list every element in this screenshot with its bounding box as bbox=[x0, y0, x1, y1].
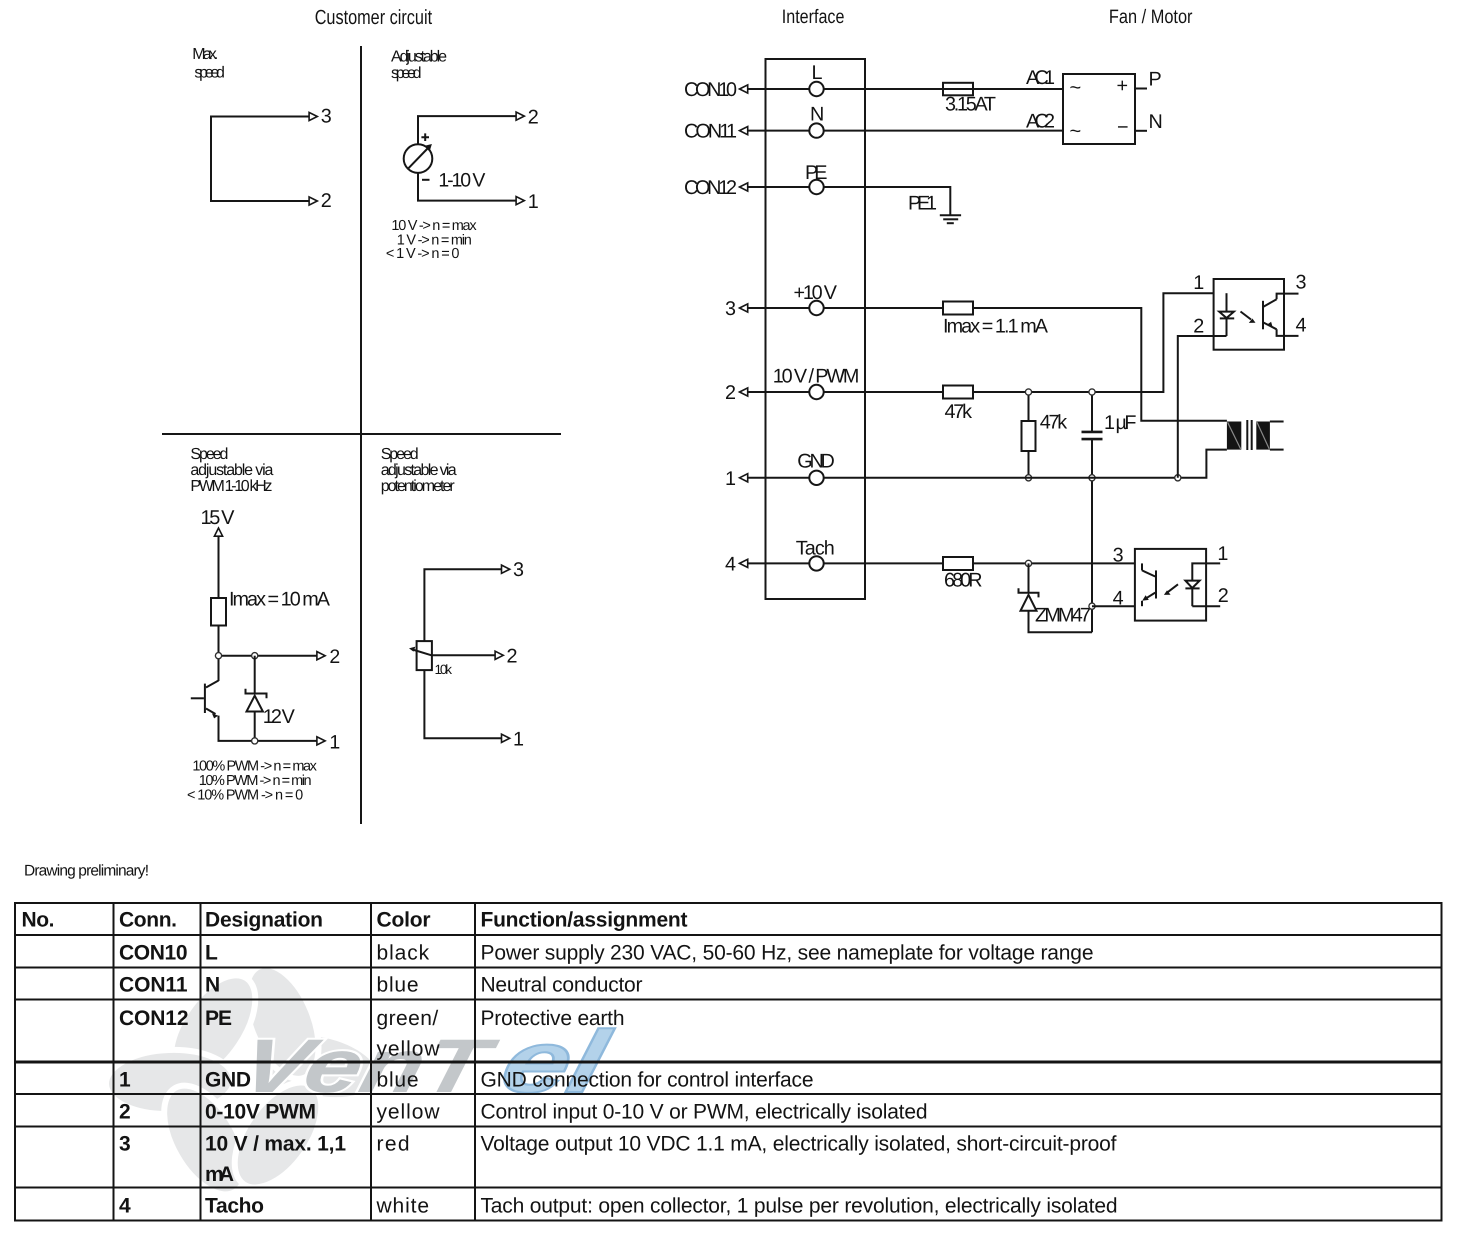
resistor Imax 1.1mA bbox=[943, 302, 973, 315]
transistor Q1 base bar bbox=[204, 684, 206, 713]
table row 4 Tacho bbox=[119, 1195, 1118, 1218]
resistor R 47k series bbox=[943, 386, 973, 399]
wire opto U1 pin2 to GND rail bbox=[1178, 336, 1227, 478]
svg-text:2: 2 bbox=[119, 1101, 131, 1124]
wire: resistor to collector bbox=[218, 626, 220, 682]
svg-text:2: 2 bbox=[528, 107, 539, 129]
plus sign bbox=[421, 133, 429, 141]
wire CON11 arrow bbox=[748, 130, 810, 132]
svg-text:4: 4 bbox=[119, 1195, 131, 1218]
junction node cap/GND bbox=[1089, 475, 1095, 481]
terminal L bbox=[809, 82, 823, 96]
svg-text:PE: PE bbox=[205, 1007, 232, 1030]
capacitor C1 1uF bbox=[1082, 392, 1103, 478]
arrowhead pin 2 bbox=[309, 197, 317, 205]
opto U2 LED bbox=[1185, 563, 1220, 606]
junction node 47k/GND bbox=[1025, 475, 1031, 481]
opto U1 light arrow bbox=[1241, 312, 1256, 323]
wire node to shunt resistor 47k bbox=[1028, 392, 1030, 421]
svg-text:Max.: Max. bbox=[192, 46, 218, 63]
wire transformer secondary bottom bbox=[1270, 449, 1284, 451]
terminal +10V bbox=[809, 301, 823, 315]
interface box bbox=[766, 59, 866, 599]
svg-text:AC2: AC2 bbox=[1026, 111, 1055, 133]
svg-text:blue: blue bbox=[377, 974, 419, 997]
connection table bbox=[15, 903, 1442, 1221]
wire N output bbox=[1135, 130, 1147, 132]
svg-text:Imax = 1.1 mA: Imax = 1.1 mA bbox=[943, 315, 1049, 337]
svg-text:Power supply 230 VAC, 50-60 Hz: Power supply 230 VAC, 50-60 Hz, see name… bbox=[481, 942, 1094, 965]
table row CON11 N bbox=[119, 974, 643, 997]
svg-text:GND: GND bbox=[797, 451, 835, 473]
arrowhead pin 3 bbox=[309, 112, 317, 120]
wire: node to zener bbox=[254, 656, 256, 694]
svg-text:black: black bbox=[377, 942, 430, 965]
junction node zener top bbox=[252, 653, 258, 659]
svg-text:1: 1 bbox=[329, 731, 340, 753]
svg-text:1: 1 bbox=[119, 1069, 131, 1092]
svg-text:PWM 1-10 kHz: PWM 1-10 kHz bbox=[190, 478, 272, 495]
table row 3 10V max 1.1mA bbox=[119, 1133, 1117, 1187]
label: Max. speed bbox=[192, 46, 225, 82]
arrowhead pin 3 bbox=[502, 565, 510, 573]
table outer border bbox=[15, 903, 1442, 1221]
arrowhead pin 2 bbox=[516, 112, 524, 120]
variability arrow through source bbox=[408, 147, 429, 169]
svg-text:CON11: CON11 bbox=[119, 974, 188, 997]
pot wiper arrow bbox=[413, 650, 432, 656]
wire Tach to resistor 680R bbox=[824, 562, 943, 564]
svg-text:Fan / Motor: Fan / Motor bbox=[1109, 6, 1193, 28]
table row CON10 L bbox=[119, 942, 1094, 965]
wire: source - to pin 1 bbox=[418, 173, 516, 201]
wire: emitter to pin 1 rail bbox=[219, 716, 318, 741]
label: Speed adjustable via PWM 1-10 kHz bbox=[190, 446, 273, 495]
transistor Q1 base wire bbox=[191, 697, 204, 699]
wire 10V/PWM to resistor 47k bbox=[824, 391, 943, 393]
svg-text:2: 2 bbox=[329, 646, 340, 668]
wire pin3 arrow bbox=[748, 307, 810, 309]
svg-text:Drawing preliminary!: Drawing preliminary! bbox=[24, 863, 149, 880]
wire N to rectifier AC2 bbox=[824, 130, 1063, 132]
table row CON12 PE bbox=[119, 1007, 625, 1061]
svg-text:No.: No. bbox=[22, 909, 55, 932]
wire: pot bottom to pin 1 bbox=[424, 670, 501, 738]
minus sign bbox=[422, 179, 430, 181]
label: Speed adjustable via potentiometer bbox=[381, 446, 457, 495]
arrowhead pin 2 bbox=[495, 651, 503, 659]
svg-text:blue: blue bbox=[377, 1069, 419, 1092]
note: voltage to speed mapping bbox=[386, 218, 477, 262]
opto-coupler U2 box bbox=[1135, 549, 1206, 621]
svg-text:3: 3 bbox=[725, 298, 736, 320]
svg-text:N: N bbox=[205, 974, 220, 997]
svg-text:N: N bbox=[810, 104, 824, 126]
svg-text:< 1 V -> n = 0: < 1 V -> n = 0 bbox=[386, 246, 460, 262]
wire pin1 arrow bbox=[748, 477, 810, 479]
svg-text:PE1: PE1 bbox=[908, 193, 937, 215]
svg-text:1: 1 bbox=[528, 191, 539, 213]
svg-text:1: 1 bbox=[1193, 272, 1204, 294]
svg-text:Control input 0-10 V or PWM, e: Control input 0-10 V or PWM, electricall… bbox=[481, 1101, 928, 1124]
svg-text:CON11: CON11 bbox=[684, 121, 737, 143]
svg-text:10 V / PWM: 10 V / PWM bbox=[773, 366, 860, 388]
svg-text:10k: 10k bbox=[435, 662, 453, 677]
resistor R 47k shunt bbox=[1022, 421, 1036, 451]
zener diode 12V bbox=[246, 689, 267, 741]
svg-text:+10 V: +10 V bbox=[794, 282, 838, 304]
wire 680R to opto U2 pin3 bbox=[973, 562, 1142, 564]
wire: wiper to pin 2 bbox=[432, 654, 495, 656]
wire: pot top to pin 3 bbox=[424, 569, 501, 641]
arrowhead up 15V bbox=[214, 528, 222, 536]
arrowhead pin 2 bbox=[317, 652, 325, 660]
junction node tach/zener bbox=[1025, 560, 1031, 566]
svg-text:~: ~ bbox=[1070, 77, 1082, 99]
rectifier bridge U3 bbox=[1063, 74, 1135, 144]
svg-text:~: ~ bbox=[1070, 121, 1082, 143]
svg-text:speed: speed bbox=[194, 65, 225, 82]
terminal GND bbox=[809, 471, 823, 485]
svg-text:15 V: 15 V bbox=[201, 507, 236, 529]
svg-text:3: 3 bbox=[1113, 545, 1124, 567]
wire: 15V to resistor bbox=[218, 536, 220, 598]
svg-text:4: 4 bbox=[1113, 587, 1124, 609]
svg-text:VenT: VenT bbox=[232, 1024, 505, 1109]
opto-coupler U1 box bbox=[1214, 279, 1284, 350]
svg-text:2: 2 bbox=[725, 382, 736, 404]
table header row bbox=[22, 909, 688, 932]
svg-text:Imax = 10 mA: Imax = 10 mA bbox=[229, 589, 331, 611]
svg-text:P: P bbox=[1149, 69, 1162, 91]
svg-text:4: 4 bbox=[1296, 315, 1307, 337]
svg-text:Neutral conductor: Neutral conductor bbox=[481, 974, 643, 997]
GND rail wire bbox=[824, 450, 1227, 478]
svg-text:3: 3 bbox=[1296, 271, 1307, 293]
watermark wordmark VenTel bbox=[232, 1012, 619, 1111]
svg-text:Function/assignment: Function/assignment bbox=[481, 909, 688, 932]
svg-text:3: 3 bbox=[321, 106, 332, 128]
svg-text:0-10V PWM: 0-10V PWM bbox=[205, 1101, 316, 1124]
svg-text:Tach output: open collector, 1: Tach output: open collector, 1 pulse per… bbox=[481, 1195, 1118, 1218]
svg-text:PE: PE bbox=[805, 162, 828, 184]
opto U1 phototransistor bbox=[1263, 294, 1299, 336]
svg-text:Customer circuit: Customer circuit bbox=[315, 6, 433, 29]
svg-text:1 µF: 1 µF bbox=[1104, 412, 1137, 434]
svg-text:47k: 47k bbox=[945, 401, 973, 423]
transistor Q1 emitter bbox=[206, 709, 216, 715]
wire: source + to pin 2 bbox=[418, 116, 516, 144]
svg-text:3: 3 bbox=[513, 559, 524, 581]
transformer T1 primary winding bbox=[1227, 422, 1241, 450]
wire +10V to resistor bbox=[824, 307, 943, 309]
svg-text:CON12: CON12 bbox=[684, 177, 737, 199]
wire cap GND down to opto U2 pin4 net bbox=[1091, 478, 1093, 633]
svg-text:mA: mA bbox=[205, 1163, 234, 1186]
svg-text:Tacho: Tacho bbox=[205, 1195, 264, 1218]
svg-text:CON12: CON12 bbox=[119, 1007, 189, 1030]
wire P output bbox=[1135, 88, 1147, 90]
divider line vertical bbox=[360, 46, 362, 824]
svg-text:red: red bbox=[377, 1133, 410, 1156]
svg-text:Protective earth: Protective earth bbox=[481, 1007, 625, 1030]
svg-text:Conn.: Conn. bbox=[119, 909, 177, 932]
fuse F1 3.15AT bbox=[943, 83, 973, 96]
svg-text:Voltage output 10 VDC 1.1 mA,: Voltage output 10 VDC 1.1 mA, electrical… bbox=[481, 1133, 1117, 1156]
transformer T1 core bbox=[1247, 420, 1251, 450]
arrowhead pin 1 bbox=[317, 737, 325, 745]
zener diode ZMM47 bbox=[1019, 563, 1093, 632]
svg-text:AC1: AC1 bbox=[1026, 67, 1055, 89]
svg-text:2: 2 bbox=[1218, 585, 1229, 607]
svg-text:yellow: yellow bbox=[377, 1038, 441, 1061]
svg-text:Interface: Interface bbox=[782, 6, 845, 28]
wire: max speed jumper pin3 to pin2 bbox=[211, 117, 310, 202]
terminal N bbox=[809, 123, 823, 137]
svg-text:CON10: CON10 bbox=[119, 942, 188, 965]
terminal 10V/PWM bbox=[809, 385, 823, 399]
terminal Tach bbox=[809, 556, 823, 570]
svg-text:CON10: CON10 bbox=[684, 79, 737, 101]
wire fuse to rectifier AC1 bbox=[973, 88, 1063, 90]
svg-text:3: 3 bbox=[119, 1133, 131, 1156]
voltage source 1-10V circle bbox=[404, 144, 433, 173]
junction node opto1 pin2 / GND bbox=[1175, 475, 1181, 481]
svg-text:1-10 V: 1-10 V bbox=[438, 169, 485, 191]
svg-text:L: L bbox=[812, 62, 823, 84]
svg-text:speed: speed bbox=[391, 65, 422, 82]
svg-text:Speed: Speed bbox=[190, 446, 228, 463]
svg-text:680R: 680R bbox=[944, 569, 983, 591]
wire L to fuse bbox=[824, 88, 943, 90]
wire CON10 arrow bbox=[748, 88, 810, 90]
svg-text:−: − bbox=[1117, 117, 1129, 139]
note: PWM duty to speed mapping bbox=[187, 758, 318, 803]
svg-text:white: white bbox=[376, 1195, 430, 1218]
svg-text:Speed: Speed bbox=[381, 446, 419, 463]
wire pin4 of opto U2 bbox=[1092, 605, 1142, 607]
svg-text:Adjustable: Adjustable bbox=[391, 49, 447, 66]
wire shunt 47k to GND rail bbox=[1028, 451, 1030, 478]
svg-text:Designation: Designation bbox=[205, 909, 323, 932]
svg-text:yellow: yellow bbox=[377, 1101, 441, 1124]
svg-text:adjustable via: adjustable via bbox=[190, 462, 273, 479]
resistor R 680R bbox=[943, 557, 973, 570]
watermark fan logo bbox=[105, 955, 619, 1208]
junction node zener bottom bbox=[252, 738, 258, 744]
svg-text:2: 2 bbox=[1193, 315, 1204, 337]
label: Adjustable speed bbox=[391, 49, 447, 83]
svg-text:4: 4 bbox=[725, 553, 736, 575]
divider line horizontal bbox=[162, 433, 561, 435]
wire PE to earth bbox=[824, 187, 951, 215]
opto U1 LED bbox=[1219, 293, 1234, 336]
svg-text:1: 1 bbox=[513, 729, 524, 751]
svg-text:3.15AT: 3.15AT bbox=[945, 94, 996, 116]
svg-text:1: 1 bbox=[1217, 543, 1228, 565]
svg-text:10 V / max. 1,1: 10 V / max. 1,1 bbox=[205, 1133, 346, 1156]
wire CON12 arrow bbox=[748, 186, 810, 188]
svg-text:adjustable via: adjustable via bbox=[381, 462, 457, 479]
junction node on collector net bbox=[215, 653, 221, 659]
arrowhead pin 1 bbox=[516, 197, 524, 205]
svg-text:potentiometer: potentiometer bbox=[381, 478, 456, 495]
svg-text:1: 1 bbox=[725, 468, 736, 490]
svg-text:2: 2 bbox=[507, 646, 518, 668]
wire +10V to transformer primary top bbox=[973, 308, 1227, 421]
wire transformer secondary top bbox=[1270, 421, 1284, 423]
ground symbol PE1 bbox=[940, 215, 961, 223]
junction node PWM/47k bbox=[1025, 389, 1031, 395]
svg-text:< 10% PWM -> n = 0: < 10% PWM -> n = 0 bbox=[187, 787, 303, 803]
svg-text:L: L bbox=[205, 942, 218, 965]
potentiometer R 10k bbox=[417, 641, 432, 670]
wire: node to pin 2 bbox=[219, 655, 318, 657]
table column lines bbox=[113, 903, 115, 1221]
svg-text:N: N bbox=[1149, 111, 1163, 133]
svg-text:ZMM47: ZMM47 bbox=[1035, 605, 1091, 627]
table row 1 GND bbox=[119, 1069, 814, 1092]
junction node zener/pin4 bbox=[1089, 603, 1095, 609]
svg-text:12 V: 12 V bbox=[263, 706, 296, 728]
table row lines bbox=[15, 934, 1442, 936]
terminal PE bbox=[809, 180, 823, 194]
transistor Q1 collector bbox=[206, 681, 219, 688]
svg-text:Color: Color bbox=[377, 909, 431, 932]
resistor Imax=10mA bbox=[211, 598, 226, 626]
svg-text:GND: GND bbox=[205, 1069, 251, 1092]
svg-text:47k: 47k bbox=[1040, 412, 1068, 434]
wire pin2 arrow bbox=[748, 391, 810, 393]
svg-text:GND connection for control int: GND connection for control interface bbox=[481, 1069, 814, 1092]
svg-text:green/: green/ bbox=[377, 1007, 439, 1030]
opto U2 light arrow bbox=[1164, 584, 1178, 595]
arrowhead pin 1 bbox=[502, 734, 510, 742]
opto U2 phototransistor bbox=[1142, 563, 1156, 606]
svg-text:Tach: Tach bbox=[796, 537, 835, 559]
svg-text:2: 2 bbox=[321, 190, 332, 212]
svg-text:+: + bbox=[1117, 75, 1129, 97]
wire pin4 arrow bbox=[748, 562, 810, 564]
transformer T1 secondary winding bbox=[1256, 422, 1270, 450]
wire 47k to opto U1 pin1 bbox=[973, 293, 1227, 392]
junction node PWM/cap bbox=[1089, 389, 1095, 395]
table row 2 0-10V PWM bbox=[119, 1101, 928, 1124]
